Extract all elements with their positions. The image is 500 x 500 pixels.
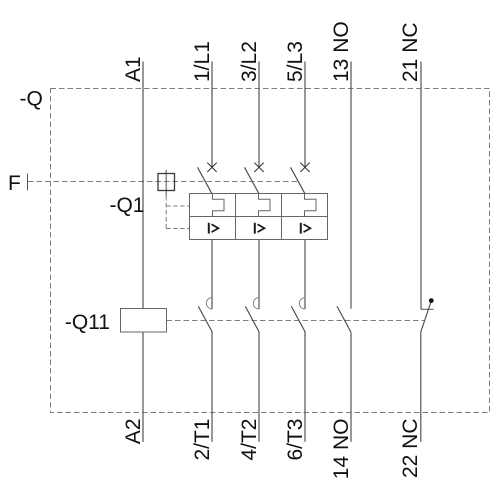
svg-text:13 NO: 13 NO: [330, 21, 353, 82]
svg-text:14 NO: 14 NO: [330, 419, 353, 480]
svg-text:-Q1: -Q1: [109, 194, 144, 217]
svg-text:6/T3: 6/T3: [284, 419, 307, 461]
svg-text:A2: A2: [122, 419, 145, 445]
svg-text:-Q: -Q: [20, 88, 43, 111]
svg-text:3/L2: 3/L2: [238, 41, 261, 82]
svg-text:2/T1: 2/T1: [191, 419, 214, 461]
svg-text:-Q11: -Q11: [65, 311, 110, 334]
svg-text:22 NC: 22 NC: [399, 419, 422, 479]
svg-text:4/T2: 4/T2: [238, 419, 261, 461]
svg-text:5/L3: 5/L3: [284, 41, 307, 82]
svg-text:A1: A1: [122, 56, 145, 82]
svg-text:1/L1: 1/L1: [191, 41, 214, 82]
svg-text:F: F: [8, 172, 21, 195]
svg-text:21 NC: 21 NC: [399, 22, 422, 82]
